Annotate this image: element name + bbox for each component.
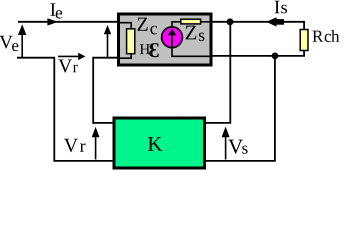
label Ve	[0, 36, 18, 51]
voltage arrow Vr (horizontal, in gap of bottom-left rail)	[58, 55, 79, 57]
label H epsilon	[140, 43, 159, 57]
voltage arrow Ve	[21, 34, 23, 58]
label K	[148, 137, 162, 151]
arrow inside current source	[171, 34, 173, 47]
current source H-epsilon (magenta circle)	[162, 27, 183, 48]
wire: left riser down to feedback bottom rail toward K	[54, 58, 114, 161]
wire: current source bottom to box right border	[172, 47, 210, 56]
label Vr (bottom)	[64, 139, 86, 152]
wire: internal stub from Zc bottom to left pin	[120, 54, 131, 58]
wire: K top-left wire	[92, 122, 114, 124]
label Rch	[312, 30, 339, 42]
label Zc	[137, 18, 157, 35]
wire: bottom-left rail from Ve to corner	[17, 57, 55, 59]
label Vs (bottom)	[228, 140, 247, 154]
wire: riser from K top-left up to amplifier bottom-left pin	[93, 58, 118, 124]
wire: riser from bottom output node down to K bottom-right rail	[205, 56, 275, 161]
amplifier box H (gray)	[119, 14, 212, 65]
wire: Rch bottom to box bottom-right pin	[211, 51, 304, 56]
feedback network K (green box)	[114, 118, 205, 168]
wire: top output wire from box to Rch top	[211, 22, 304, 30]
wire: internal stub from left pin to Zc top	[120, 23, 131, 29]
impedance Zs (yellow)	[181, 19, 201, 24]
current arrow Ie on top input wire	[47, 18, 58, 25]
wire: current source top to Zs left	[172, 22, 180, 27]
voltage arrow Vr (feedback output, up)	[95, 136, 97, 160]
label Vr (middle)	[58, 60, 77, 73]
voltage arrow Vs (output sample, up)	[225, 136, 227, 160]
node dot on bottom output wire	[272, 53, 279, 60]
node dot on top output wire	[227, 18, 234, 25]
wire: top input wire from Ve node to amplifier box left pin	[18, 21, 118, 23]
label Zs	[186, 26, 205, 41]
voltage arrow epsilon at amplifier input	[107, 34, 109, 58]
label Ie	[50, 3, 62, 18]
current arrow Is (pointing left toward node)	[266, 17, 276, 26]
label Is	[275, 1, 287, 14]
load resistor Rch (yellow)	[300, 30, 308, 51]
wire: Zs right to box right border	[201, 21, 210, 23]
wire: riser from top output node down to K top-right wire	[205, 22, 230, 123]
impedance Zc (yellow)	[127, 29, 135, 54]
